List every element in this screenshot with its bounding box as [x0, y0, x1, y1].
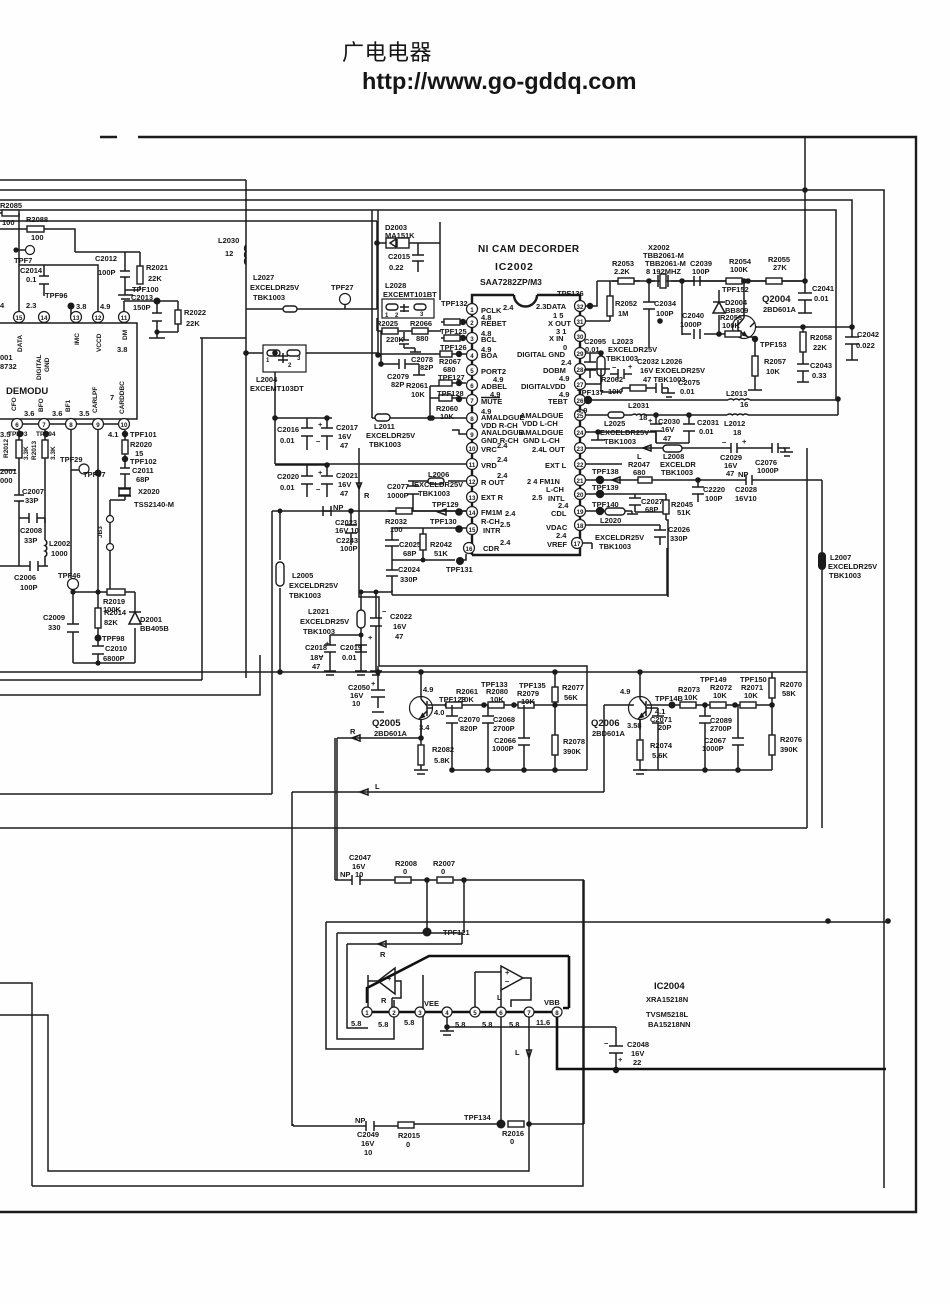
svg-text:47: 47 — [312, 662, 320, 671]
resistor pin3 — [441, 337, 466, 339]
svg-text:22: 22 — [577, 462, 584, 469]
svg-text:2.3DATA: 2.3DATA — [536, 302, 567, 311]
bus bottom Q2005 area — [0, 666, 807, 770]
svg-text:L-CH: L-CH — [546, 485, 564, 494]
capacitor C2067 — [732, 705, 744, 770]
svg-text:5.8: 5.8 — [351, 1019, 361, 1028]
svg-text:R2042: R2042 — [430, 540, 452, 549]
svg-text:10: 10 — [352, 699, 360, 708]
svg-text:TPF27: TPF27 — [331, 283, 354, 292]
svg-text:R-CH: R-CH — [481, 517, 500, 526]
pin 7 — [39, 419, 50, 430]
svg-text:C2040: C2040 — [682, 311, 704, 320]
svg-text:−: − — [316, 437, 321, 446]
svg-text:10: 10 — [469, 446, 476, 453]
capacitor C2021 — [275, 465, 333, 497]
svg-text:L: L — [375, 782, 380, 791]
svg-text:2.5: 2.5 — [500, 520, 510, 529]
svg-text:0.01: 0.01 — [280, 483, 295, 492]
svg-text:16V: 16V — [661, 425, 674, 434]
svg-text:20P: 20P — [658, 723, 671, 732]
svg-text:2.2K: 2.2K — [614, 267, 630, 276]
svg-text:C2034: C2034 — [654, 299, 677, 308]
svg-text:EXT L: EXT L — [545, 461, 567, 470]
svg-text:5.8: 5.8 — [378, 1020, 388, 1029]
svg-text:0.22: 0.22 — [389, 263, 404, 272]
svg-text:L: L — [515, 1048, 520, 1057]
svg-text:100P: 100P — [656, 309, 674, 318]
svg-text:0.33: 0.33 — [812, 371, 827, 380]
resistor R2062 — [601, 384, 650, 392]
svg-text:IMC: IMC — [74, 333, 81, 345]
svg-text:100: 100 — [31, 233, 44, 242]
resistor R2088 — [27, 226, 44, 232]
resistor R2082 — [414, 738, 428, 774]
svg-text:+: + — [368, 633, 373, 642]
svg-text:EXCELDR25V: EXCELDR25V — [414, 480, 463, 489]
resistor R2025 — [377, 318, 441, 331]
svg-text:C2075: C2075 — [678, 378, 700, 387]
svg-text:15: 15 — [16, 315, 23, 322]
svg-text:C2021: C2021 — [336, 471, 358, 480]
IC2004 pins — [362, 1007, 372, 1017]
svg-text:18: 18 — [733, 428, 741, 437]
svg-text:+: + — [371, 679, 376, 688]
capacitor C2007 — [14, 488, 24, 518]
svg-text:5: 5 — [470, 368, 474, 375]
left section frame — [0, 180, 260, 695]
svg-text:R2078: R2078 — [563, 737, 585, 746]
pin 10 — [119, 419, 130, 430]
VBB thick rail — [557, 1017, 886, 1069]
capacitor C2076 — [772, 443, 793, 456]
bus wire to D2003 box — [0, 220, 377, 222]
resistor R2013 — [44, 430, 46, 538]
outer page border — [0, 137, 916, 1212]
IC2004 outer rect — [326, 922, 462, 1049]
jumper JB3 — [107, 516, 114, 523]
svg-text:2.4: 2.4 — [497, 455, 508, 464]
svg-text:1000P: 1000P — [702, 744, 724, 753]
svg-text:47: 47 — [340, 441, 348, 450]
svg-text:10: 10 — [364, 1148, 372, 1157]
svg-text:0: 0 — [510, 1137, 514, 1146]
svg-text:TPF139: TPF139 — [592, 483, 619, 492]
svg-text:13: 13 — [469, 495, 476, 502]
svg-text:C2031: C2031 — [697, 418, 719, 427]
svg-text:C2042: C2042 — [857, 330, 879, 339]
emitter wire Q2004 — [748, 336, 762, 390]
wire row — [73, 591, 135, 593]
wire L2004 row — [246, 352, 378, 354]
capacitor C2043 — [797, 358, 809, 382]
test point TPF94 — [43, 431, 49, 437]
capacitor C2243 — [345, 511, 357, 545]
svg-text:10K: 10K — [766, 367, 780, 376]
svg-text:L: L — [497, 993, 502, 1002]
svg-text:10K: 10K — [411, 390, 425, 399]
resistor R2042 — [422, 528, 424, 560]
svg-text:51K: 51K — [677, 508, 691, 517]
svg-text:GND L-CH: GND L-CH — [523, 436, 560, 445]
svg-text:EXCELDR25V: EXCELDR25V — [828, 562, 877, 571]
svg-text:BA15218NN: BA15218NN — [648, 1020, 691, 1029]
svg-text:TPF129: TPF129 — [432, 500, 459, 509]
svg-text:−: − — [316, 485, 321, 494]
resistor R2060 pin7 — [430, 397, 466, 399]
svg-text:CARDDBC: CARDDBC — [119, 381, 126, 414]
svg-text:31: 31 — [577, 319, 584, 326]
test point TPF101 — [122, 431, 128, 437]
test point TPF7 — [26, 246, 35, 255]
svg-text:82P: 82P — [420, 363, 433, 372]
capacitor C2010 — [92, 641, 104, 663]
svg-text:100: 100 — [2, 218, 15, 227]
wire to C2024 — [392, 560, 455, 565]
resistor R2015 — [398, 1122, 414, 1128]
svg-text:10K: 10K — [521, 697, 535, 706]
svg-text:BFO: BFO — [38, 398, 45, 412]
svg-text:C2028: C2028 — [735, 485, 757, 494]
svg-text:33P: 33P — [24, 536, 37, 545]
svg-text:R2025: R2025 — [376, 319, 398, 328]
capacitor C2039 — [682, 276, 710, 286]
svg-text:1: 1 — [470, 307, 474, 314]
svg-text:100P: 100P — [98, 268, 116, 277]
wire pin24 ground — [586, 432, 656, 443]
svg-text:Q2005: Q2005 — [372, 718, 401, 729]
op-amp IC2001 body — [0, 323, 137, 419]
svg-text:2BD601A: 2BD601A — [763, 305, 797, 314]
svg-text:R2088: R2088 — [26, 215, 48, 224]
svg-text:EXCELDR25V: EXCELDR25V — [250, 283, 299, 292]
wire top to Q2004 — [597, 137, 805, 287]
svg-text:C2022: C2022 — [390, 612, 412, 621]
svg-text:22K: 22K — [148, 274, 162, 283]
svg-text:NP: NP — [355, 1116, 365, 1125]
svg-text:10K: 10K — [684, 693, 698, 702]
svg-text:100K: 100K — [730, 265, 749, 274]
capacitor C2018 — [324, 635, 361, 675]
svg-text:47: 47 — [726, 469, 734, 478]
long wire y922 — [326, 921, 890, 923]
diode D2003 box — [377, 221, 440, 309]
svg-text:VEE: VEE — [424, 999, 439, 1008]
svg-text:C2025: C2025 — [399, 540, 421, 549]
svg-text:4: 4 — [0, 301, 5, 310]
capacitor C2032 — [610, 369, 632, 379]
wire pin23 L OUT row — [586, 448, 807, 828]
coil L2021 — [355, 590, 367, 675]
pin9 stub — [452, 430, 466, 434]
coil L2027 — [246, 308, 310, 310]
svg-text:R2015: R2015 — [398, 1131, 420, 1140]
svg-text:R2058: R2058 — [810, 333, 832, 342]
resistor R2073 — [680, 702, 696, 708]
svg-text:L2031: L2031 — [628, 401, 649, 410]
svg-text:680: 680 — [633, 468, 646, 477]
test point TPF138 — [596, 476, 604, 484]
svg-text:TPF150: TPF150 — [740, 675, 767, 684]
coil L2025 — [608, 412, 624, 418]
svg-text:4.9: 4.9 — [577, 406, 587, 415]
wire C2024 bottom row — [361, 585, 392, 592]
svg-text:NP: NP — [333, 503, 343, 512]
svg-text:TPF136: TPF136 — [557, 289, 584, 298]
svg-text:51K: 51K — [434, 549, 448, 558]
svg-text:2: 2 — [392, 1010, 396, 1017]
capacitor NP C2023 — [323, 506, 331, 516]
svg-text:TPF138: TPF138 — [592, 467, 619, 476]
test point TPF46 — [68, 579, 79, 590]
svg-text:0.01: 0.01 — [342, 653, 357, 662]
pin 8 — [66, 419, 77, 430]
svg-text:6: 6 — [499, 1010, 503, 1017]
svg-text:0: 0 — [403, 867, 407, 876]
svg-text:10K: 10K — [460, 695, 474, 704]
svg-text:100K: 100K — [722, 321, 741, 330]
resistor R2007 — [437, 877, 453, 883]
svg-text:TBK1003: TBK1003 — [418, 489, 450, 498]
emitter chain Q2006 — [647, 704, 772, 706]
svg-text:R2061: R2061 — [406, 381, 428, 390]
transistor Q2006 — [629, 697, 652, 720]
svg-text:L2002: L2002 — [49, 539, 70, 548]
ground — [118, 295, 133, 299]
svg-text:9: 9 — [96, 422, 100, 429]
svg-text:EXCEMT103DT: EXCEMT103DT — [250, 384, 304, 393]
svg-text:R2070: R2070 — [780, 680, 802, 689]
svg-text:C2010: C2010 — [105, 644, 127, 653]
svg-text:TPF94: TPF94 — [36, 431, 56, 438]
svg-text:5.6K: 5.6K — [652, 751, 668, 760]
svg-text:17: 17 — [574, 541, 581, 548]
svg-text:TPF127: TPF127 — [438, 373, 465, 382]
svg-text:16V EXOELDR25V: 16V EXOELDR25V — [640, 366, 705, 375]
svg-text:56K: 56K — [564, 693, 578, 702]
svg-text:1000: 1000 — [51, 549, 68, 558]
svg-text:0.01: 0.01 — [699, 427, 714, 436]
wire pin11 route — [275, 372, 466, 464]
resistor R2020 — [124, 430, 126, 457]
resistor R2019 — [107, 589, 125, 595]
svg-text:C2041: C2041 — [812, 284, 834, 293]
test point TPF27 — [340, 294, 351, 305]
svg-text:Q2004: Q2004 — [762, 294, 791, 305]
coil L2011 — [375, 414, 390, 421]
resistor R2021 — [137, 266, 143, 284]
svg-text:21: 21 — [577, 478, 584, 485]
svg-text:100P: 100P — [340, 544, 358, 553]
svg-text:NP: NP — [738, 470, 748, 479]
bottom rail Q2005 — [452, 769, 587, 771]
capacitor C2070 — [446, 705, 458, 770]
svg-text:TBK1003: TBK1003 — [599, 542, 631, 551]
capacitor C2050 — [371, 666, 385, 712]
svg-text:TPF135: TPF135 — [519, 681, 546, 690]
svg-text:JB3: JB3 — [97, 526, 104, 538]
pin 11 — [119, 312, 130, 323]
capacitor C2071 — [652, 708, 664, 770]
resistor R2022 — [157, 301, 178, 332]
svg-text:C2011: C2011 — [132, 466, 154, 475]
pin 13 — [71, 312, 82, 323]
wire pin4 route — [377, 210, 379, 355]
svg-text:3.6: 3.6 — [52, 409, 62, 418]
wire pin25 L2012 row — [586, 399, 838, 415]
svg-text:5.8: 5.8 — [404, 1018, 414, 1027]
svg-text:10: 10 — [121, 422, 128, 429]
svg-text:4.1: 4.1 — [108, 430, 118, 439]
capacitor C2008 — [19, 513, 45, 566]
svg-text:R: R — [380, 950, 386, 959]
wire pin4 row — [381, 331, 466, 364]
svg-text:0.01: 0.01 — [814, 294, 829, 303]
svg-text:TPF132: TPF132 — [441, 299, 468, 308]
svg-text:47: 47 — [663, 434, 671, 443]
svg-text:C2015: C2015 — [388, 252, 410, 261]
svg-text:10K: 10K — [440, 412, 454, 421]
svg-text:11.6: 11.6 — [536, 1018, 550, 1027]
svg-text:10: 10 — [355, 870, 363, 879]
svg-text:0.01: 0.01 — [680, 387, 695, 396]
svg-text:2.4: 2.4 — [497, 471, 508, 480]
svg-text:TPF133: TPF133 — [481, 680, 508, 689]
vertical to NP wire — [0, 511, 272, 794]
svg-text:3.3K: 3.3K — [23, 446, 30, 460]
svg-text:REBET: REBET — [481, 319, 507, 328]
svg-text:16: 16 — [466, 546, 473, 553]
svg-text:390K: 390K — [563, 747, 582, 756]
svg-text:68P: 68P — [403, 549, 416, 558]
resistor R2071 — [740, 702, 756, 708]
resistor R2079 — [518, 702, 534, 708]
svg-text:47: 47 — [340, 489, 348, 498]
svg-text:2: 2 — [470, 320, 474, 327]
frame 2 — [0, 190, 884, 1188]
svg-text:12: 12 — [95, 315, 102, 322]
svg-text:2.4: 2.4 — [556, 531, 567, 540]
resistor R2032 — [388, 510, 466, 512]
svg-text:8: 8 — [555, 1010, 559, 1017]
svg-text:TPF14B: TPF14B — [655, 694, 684, 703]
svg-text:TPF102: TPF102 — [130, 457, 157, 466]
svg-text:8732: 8732 — [0, 362, 17, 371]
svg-text:2BD601A: 2BD601A — [592, 729, 626, 738]
svg-text:BB405B: BB405B — [140, 624, 169, 633]
svg-text:L2025: L2025 — [604, 419, 625, 428]
svg-text:1: 1 — [365, 1010, 369, 1017]
NP wire to L2007 — [746, 475, 822, 552]
svg-text:VREF: VREF — [547, 540, 567, 549]
coil L2007 — [818, 552, 826, 570]
svg-text:820P: 820P — [460, 724, 478, 733]
svg-text:33P: 33P — [25, 496, 38, 505]
R arrow wire — [347, 944, 462, 1028]
svg-text:IC2002: IC2002 — [495, 261, 534, 273]
test point TPF96 — [68, 303, 75, 310]
svg-text:C2012: C2012 — [95, 254, 117, 263]
svg-text:2.3: 2.3 — [26, 301, 36, 310]
resistor R2016 — [508, 1121, 524, 1127]
svg-text:1000P: 1000P — [492, 744, 514, 753]
capacitor C2075 — [650, 383, 675, 397]
svg-text:C2008: C2008 — [20, 526, 42, 535]
svg-text:EXCELDR25V: EXCELDR25V — [289, 581, 338, 590]
capacitor C2048 — [609, 1027, 623, 1070]
svg-text:TPF134: TPF134 — [464, 1113, 492, 1122]
svg-text:TPF7: TPF7 — [14, 256, 32, 265]
svg-text:C2068: C2068 — [493, 715, 515, 724]
svg-text:330: 330 — [48, 623, 61, 632]
svg-text:3: 3 — [470, 336, 474, 343]
coil L2023 — [600, 353, 602, 384]
svg-text:L2007: L2007 — [830, 553, 851, 562]
wire pin9 down — [97, 430, 99, 592]
capacitor C2012 — [120, 267, 130, 283]
svg-text:2700P: 2700P — [710, 724, 732, 733]
capacitor C2066 — [518, 705, 530, 770]
coil L2006 — [408, 480, 466, 482]
svg-text:TSS2140-M: TSS2140-M — [134, 500, 174, 509]
svg-text:DATA: DATA — [17, 335, 24, 352]
svg-text:R2062: R2062 — [601, 375, 623, 384]
coil L2030 — [245, 245, 246, 265]
capacitor C2011 — [120, 461, 130, 484]
svg-text:DM: DM — [122, 330, 129, 340]
capacitor C2077 — [407, 481, 419, 511]
coil L2020 — [586, 511, 638, 518]
svg-text:TVSM5218L: TVSM5218L — [646, 1010, 689, 1019]
svg-text:X2020: X2020 — [138, 487, 160, 496]
svg-text:C2007: C2007 — [22, 487, 44, 496]
capacitor C2029 — [728, 443, 740, 453]
svg-text:D2001: D2001 — [140, 615, 162, 624]
op-amp left — [378, 968, 395, 994]
svg-text:+: + — [325, 639, 330, 648]
test point TPF29 — [79, 464, 89, 474]
coil L2028 box — [382, 299, 434, 318]
transistor Q2005 — [410, 697, 433, 720]
svg-text:TPF131: TPF131 — [446, 565, 473, 574]
svg-text:1000P: 1000P — [387, 491, 409, 500]
capacitor C2013 — [152, 301, 162, 332]
resistor R2076 — [771, 705, 773, 770]
svg-text:16V 10: 16V 10 — [335, 526, 359, 535]
svg-text:R2085: R2085 — [0, 201, 22, 210]
svg-text:6: 6 — [15, 422, 19, 429]
capacitor small + ground — [399, 332, 421, 352]
svg-text:EXCELDR25V: EXCELDR25V — [595, 533, 644, 542]
capacitor C2006 — [0, 561, 48, 571]
long L bus — [0, 827, 807, 829]
svg-text:CFO: CFO — [11, 397, 18, 411]
svg-text:+: + — [505, 968, 510, 977]
resistor R2052 — [586, 281, 610, 321]
node junction — [243, 350, 249, 356]
coil L2013 — [728, 399, 750, 400]
svg-text:000: 000 — [0, 476, 13, 485]
svg-text:R2074: R2074 — [650, 741, 673, 750]
resistor R2058 — [802, 327, 804, 358]
pin 9 — [93, 419, 104, 430]
svg-text:TPF46: TPF46 — [58, 571, 81, 580]
resistor R2057 — [752, 356, 758, 376]
svg-text:MUTE: MUTE — [481, 397, 502, 406]
svg-text:TPF128: TPF128 — [437, 389, 464, 398]
capacitor C2220 — [692, 480, 704, 502]
svg-text:14: 14 — [469, 510, 476, 517]
